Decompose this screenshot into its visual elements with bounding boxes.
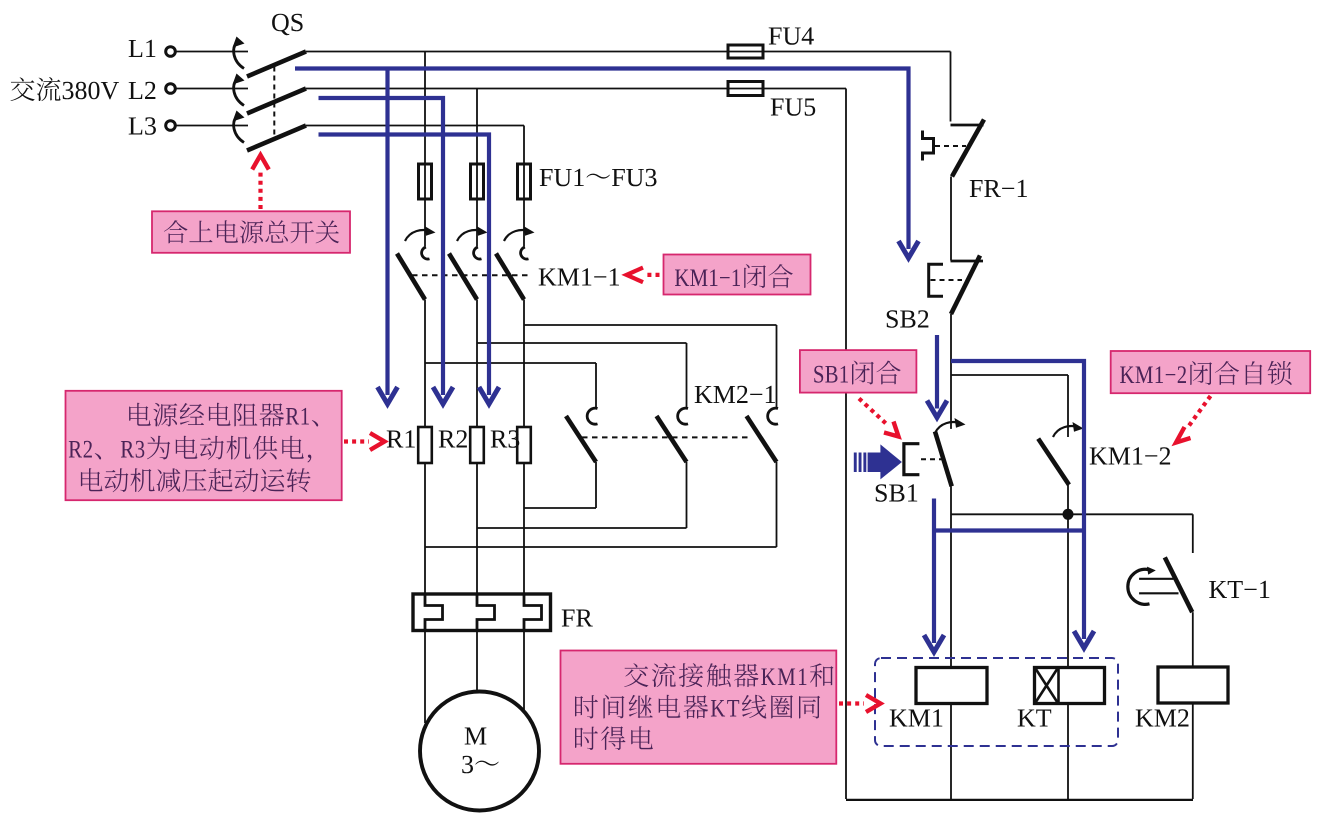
label KM2-1: [695, 386, 775, 403]
resistor R3: [517, 427, 531, 463]
wire col2 to motor: [476, 631, 478, 693]
label L1: [129, 40, 156, 57]
resistor R2: [470, 427, 484, 463]
annotation box KM1-2闭合自锁: [1111, 351, 1311, 393]
contact KM1-1 pole 3 blade: [496, 254, 524, 300]
wire KM2 coil to bus: [1192, 703, 1194, 799]
wire below KM2-1 pole 1: [595, 462, 597, 508]
wire KT coil to bus: [1067, 704, 1069, 800]
SB2 linkage dashed: [931, 279, 963, 281]
contact KM2-1 pole 2 hook: [678, 408, 688, 424]
dashed group box around KM1 and KT coils: [875, 658, 1118, 746]
contact FR-1 bar: [951, 124, 984, 127]
switch QS pole 2 blade: [247, 89, 306, 114]
wire column 1 from L1: [424, 52, 426, 247]
wire L3 input: [175, 125, 248, 127]
wire column 2 from L2: [476, 89, 478, 247]
switch QS pole 2 arrow: [234, 80, 244, 106]
contact KM1-1 pole 3 arrow: [504, 230, 529, 241]
wire L2 bus to FU5 and left rail: [306, 88, 846, 90]
label QS: [272, 14, 303, 35]
contact KT-1 blade: [1165, 557, 1192, 612]
wire to KT-1: [1192, 514, 1194, 553]
fuse FU1: [419, 164, 432, 199]
wire col1 to motor: [424, 631, 426, 724]
contact KT-1 delay bars: [1139, 578, 1173, 580]
annotation box 合上电源总开关: [152, 211, 350, 253]
label L2: [129, 82, 156, 99]
switch QS pole 1 arrow: [234, 43, 244, 69]
label 3~: [462, 756, 499, 774]
node L2 terminal: [166, 84, 176, 94]
annotation box 交流接触器KM1和...: [561, 651, 837, 764]
wire below KM2-1 pole 2: [686, 462, 688, 528]
contact SB1 blade: [935, 432, 952, 487]
wire below KM1-1 pole 3: [523, 300, 525, 428]
wire below KM2-1 pole 3: [776, 462, 778, 547]
label KT-1: [1209, 581, 1269, 598]
contact SB2 bar: [951, 260, 984, 263]
contact KM2-1 linkage dashed: [582, 436, 751, 438]
wire blue self-lock bottom: [934, 528, 1085, 532]
contact SB1 arrow: [935, 422, 960, 433]
coil KM1: [916, 668, 987, 704]
label KM1: [890, 709, 943, 726]
label R2: [439, 430, 467, 447]
node L1 terminal: [166, 47, 176, 57]
wire below KM1-1 pole 2: [476, 300, 478, 428]
contact KM2-1 pole 3 hook: [768, 408, 778, 424]
contact KM1-1 linkage dashed: [412, 274, 528, 276]
wire branch to KM1-2: [951, 374, 1068, 376]
annotation box KM1-1闭合: [664, 255, 811, 295]
switch QS linkage dashed: [273, 67, 275, 138]
label FU5: [771, 99, 816, 116]
wire col2 to KM2-1 pole2 top: [477, 342, 687, 344]
label KM2: [1136, 709, 1189, 726]
wire L2 input: [175, 88, 248, 90]
thermal relay FR-1 actuator: [923, 131, 934, 161]
thermal relay FR element 2: [477, 594, 495, 631]
label R1: [387, 430, 415, 447]
red arrow to KM1-1: [645, 273, 660, 277]
label FU1~FU3: [540, 169, 657, 187]
contact KM2-1 pole 2 blade: [657, 416, 687, 462]
coil KT: [1035, 668, 1105, 704]
wire SB1 down to KM1 coil: [950, 486, 952, 669]
switch QS pole 1 blade: [247, 52, 306, 77]
label FR-1: [970, 180, 1027, 197]
wire col3 to motor: [523, 631, 525, 724]
wire main control drop from FU4: [950, 52, 952, 122]
label R3: [491, 430, 520, 448]
FR-1 linkage dashed: [935, 145, 966, 147]
red arrow to SB1: [859, 399, 887, 425]
red arrow to KM1-2: [1188, 396, 1211, 427]
wire blue SB2 to SB1 arrow: [935, 335, 939, 409]
wire column 3 from L3: [523, 126, 525, 247]
fuse FU2: [471, 164, 484, 199]
wire col3 R3 to FR: [523, 463, 525, 594]
wire col2 R2 to FR: [476, 463, 478, 594]
red arrow to QS: [258, 170, 262, 209]
wire col1 to KM2-1 pole1 top: [425, 362, 596, 364]
label M: [465, 728, 487, 745]
contact KM2-1 pole 1 blade: [566, 416, 596, 462]
label FU4: [769, 27, 814, 44]
contact KM1-1 pole 1 blade: [397, 254, 425, 300]
label FR: [562, 610, 593, 627]
red arrow to KM1/KT coils: [839, 701, 864, 705]
pushbutton SB2 actuator: [929, 264, 943, 296]
fuse FU5: [728, 82, 763, 96]
label KT: [1018, 710, 1051, 727]
fuse FU4: [728, 45, 763, 58]
label 交流380V: [11, 77, 119, 101]
SB1 linkage dashed: [921, 458, 944, 460]
annotation box SB1闭合: [800, 350, 917, 393]
contact KM1-2 blade: [1038, 439, 1069, 485]
thermal relay FR element 3: [524, 594, 542, 631]
label KM1-2: [1090, 447, 1170, 464]
wire below KM1-1 pole 1: [424, 300, 426, 428]
label SB1: [876, 484, 918, 502]
switch QS pole 3 blade: [247, 126, 306, 151]
wire col3 to KM2-1 pole3 top: [524, 324, 777, 326]
wire blue branch col1 with arrow: [385, 69, 389, 396]
contact KM1-1 pole 2 blade: [449, 254, 477, 300]
resistor R1: [418, 427, 432, 463]
wire col1 R1 to FR: [424, 463, 426, 594]
fuse FU3: [518, 164, 531, 199]
blue press arrow at SB1: [854, 444, 902, 479]
wire cross link: [951, 513, 1193, 515]
wire SB2 to SB1: [950, 314, 952, 429]
coil KM2: [1158, 667, 1228, 703]
contact KM1-1 pole 1 hook: [422, 247, 430, 259]
wire blue L1 path horizontal and drop to SB2: [295, 69, 909, 250]
pushbutton SB1 actuator: [904, 444, 920, 475]
wire left control rail: [845, 89, 847, 800]
wire KM2-1 pole2 bottom to col2: [477, 527, 687, 529]
label SB2: [887, 310, 929, 328]
contact KM2-1 pole 3 blade: [747, 416, 777, 462]
wire FR-1 to SB2: [950, 177, 952, 261]
wire L3 bus: [306, 125, 524, 127]
label KM1-1: [539, 268, 619, 285]
node L3 terminal: [166, 121, 176, 131]
wire KM1-2 down to KT coil: [1067, 485, 1069, 669]
wire KM2-1 pole3 bottom to col1: [425, 546, 777, 548]
contact SB2 blade: [951, 256, 980, 315]
wire L1 bus to FU4 and right corner: [306, 51, 951, 53]
contact KM1-1 pole 1 arrow: [405, 230, 430, 241]
red arrow to R1: [344, 439, 369, 443]
label L3: [129, 117, 156, 135]
junction dot: [1063, 509, 1074, 520]
wire KM2-1 pole1 bottom to col3: [524, 507, 596, 509]
wire blue L3 path horizontal and drop: [319, 135, 490, 396]
contact KM1-1 pole 2 hook: [474, 247, 482, 259]
wire L1 input: [175, 51, 248, 53]
switch QS pole 3 arrow: [234, 117, 244, 143]
contact KM1-1 pole 2 arrow: [457, 230, 482, 241]
wire blue self-lock top and right drop to KT: [951, 361, 1084, 639]
motor M circle: [420, 692, 539, 811]
contact KM2-1 pole 1 hook: [587, 408, 597, 424]
contact KT-1 delay arc: [1128, 569, 1150, 604]
wire KT-1 to KM2 coil: [1192, 612, 1194, 668]
thermal relay FR element 1: [425, 594, 443, 631]
wire blue L2 path horizontal and drop: [319, 98, 444, 395]
wire blue drop to KM1 arrow: [932, 499, 936, 644]
thermal relay FR box: [413, 594, 551, 631]
contact FR-1 blade: [952, 120, 984, 177]
wire bottom bus: [846, 799, 1193, 801]
wire KM1 coil to bus: [950, 704, 952, 800]
annotation box 电源经电阻器...: [66, 391, 342, 500]
contact KM1-2 arrow: [1053, 426, 1078, 437]
contact KM1-1 pole 3 hook: [521, 247, 529, 259]
